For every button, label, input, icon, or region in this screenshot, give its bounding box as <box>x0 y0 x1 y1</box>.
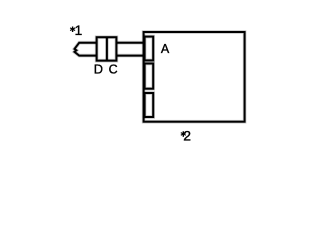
svg-text:A: A <box>161 42 170 56</box>
jack A (top socket) <box>145 37 154 61</box>
svg-text:2: 2 <box>183 127 191 143</box>
plug tip *1 <box>75 43 97 56</box>
ring divider <box>105 37 109 60</box>
jack socket 3 <box>145 93 154 117</box>
device box *2 <box>144 32 245 122</box>
label *2 asterisk <box>181 131 186 137</box>
label *1 asterisk <box>70 27 75 33</box>
svg-text:D: D <box>94 61 103 76</box>
jack socket 2 <box>145 64 154 89</box>
svg-text:C: C <box>109 62 118 76</box>
wire plug shaft <box>116 43 144 56</box>
svg-text:1: 1 <box>75 22 83 38</box>
plug ring body D/C <box>97 37 117 60</box>
